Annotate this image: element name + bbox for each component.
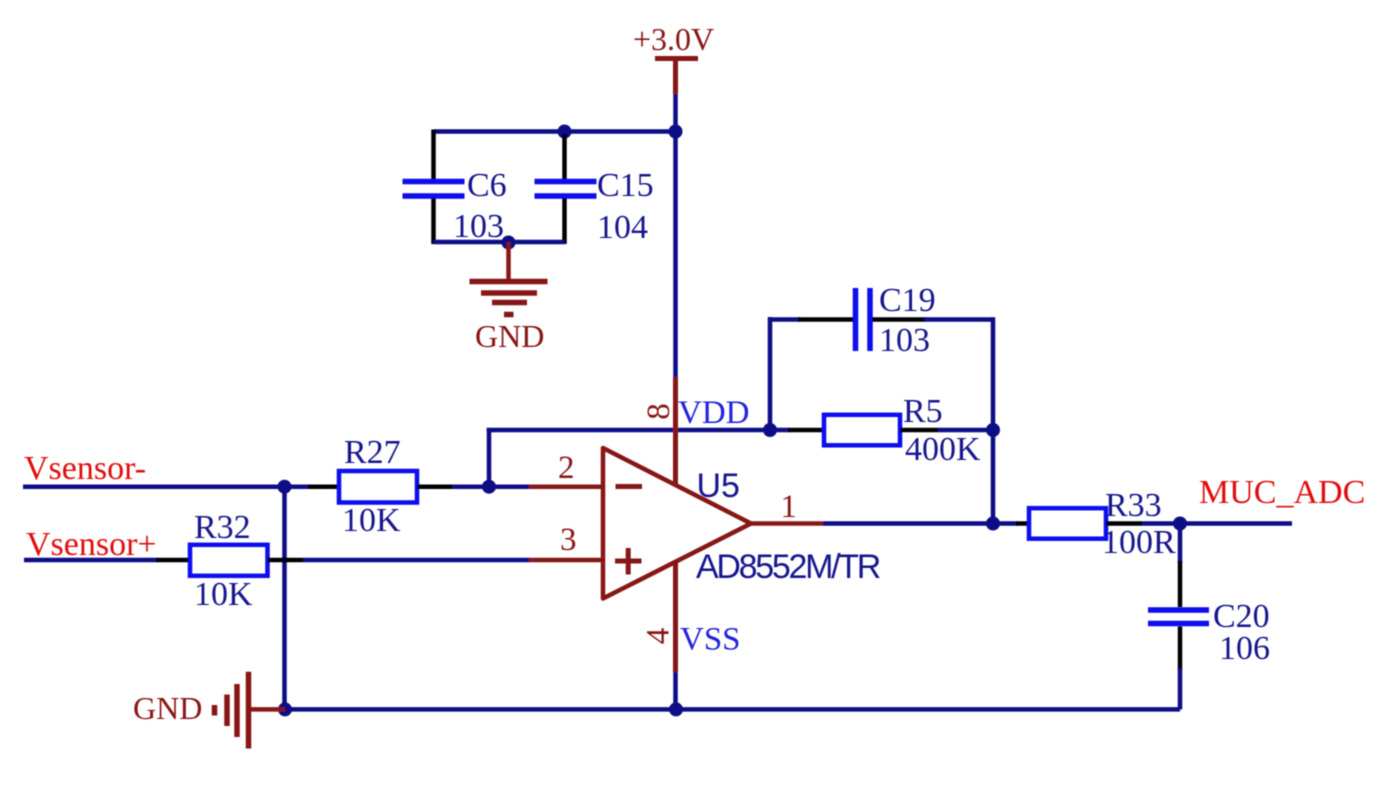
svg-text:2: 2 — [558, 450, 575, 486]
junction inverting input node — [482, 480, 496, 494]
junction top rail at +3.0V — [669, 125, 683, 139]
svg-text:103: 103 — [453, 208, 504, 245]
wire Vsensor- — [23, 484, 285, 489]
pin number 2 — [558, 450, 575, 486]
svg-text:C15: C15 — [597, 167, 654, 204]
label C19 — [879, 282, 936, 319]
power label +3.0V — [633, 21, 714, 57]
wire feedback horizontal — [487, 428, 770, 433]
svg-text:C19: C19 — [879, 282, 936, 319]
wire pin2 — [489, 484, 602, 489]
wire feedback right riser — [991, 317, 996, 430]
junction R5 right — [986, 423, 1000, 437]
wire feedback left riser to C19 — [768, 317, 773, 430]
op-amp VSS pin line (pin 4) — [673, 562, 678, 672]
svg-text:400K: 400K — [905, 431, 981, 468]
junction top rail at C15 — [558, 125, 572, 139]
label R27 — [344, 434, 401, 471]
svg-text:106: 106 — [1219, 630, 1270, 667]
op-amp VDD pin line (pin 8) — [673, 377, 678, 486]
wire MUC_ADC stub — [1180, 521, 1292, 526]
svg-text:U5: U5 — [697, 467, 740, 505]
op-amp U5 triangle — [603, 448, 751, 599]
wire feedback to output node — [991, 430, 996, 524]
svg-text:Vsensor+: Vsensor+ — [26, 526, 157, 563]
value 103 (C6) — [453, 208, 504, 245]
pin number 1 — [781, 489, 798, 525]
svg-text:GND: GND — [475, 318, 544, 354]
svg-text:C6: C6 — [467, 167, 507, 204]
svg-text:10K: 10K — [194, 576, 253, 613]
value 106 (C20) — [1219, 630, 1270, 667]
wire top cap rail — [434, 129, 676, 134]
junction output node — [986, 517, 1000, 531]
svg-text:VDD: VDD — [678, 395, 750, 431]
junction cap rail to ground — [502, 236, 516, 250]
svg-text:Vsensor-: Vsensor- — [24, 450, 146, 487]
svg-text:R32: R32 — [194, 509, 251, 546]
resistor R5 — [770, 415, 993, 446]
junction feedback left — [763, 423, 777, 437]
resistor R27 — [285, 471, 490, 503]
power label GND (left) — [133, 690, 202, 726]
svg-text:1: 1 — [781, 489, 798, 525]
svg-text:GND: GND — [133, 690, 202, 726]
svg-text:R33: R33 — [1105, 487, 1162, 524]
wire pin3 — [303, 558, 602, 563]
net label Vsensor- — [24, 450, 146, 487]
label C15 — [597, 167, 654, 204]
svg-text:8: 8 — [641, 403, 677, 420]
wire pin1 output — [751, 521, 993, 526]
junction Vsensor- node — [278, 480, 292, 494]
value 10K (R27) — [342, 502, 401, 539]
part value AD8552M/TR — [696, 548, 880, 586]
svg-text:4: 4 — [641, 628, 677, 645]
designator U5 — [697, 467, 740, 505]
svg-text:R5: R5 — [903, 393, 943, 430]
svg-text:R27: R27 — [344, 434, 401, 471]
ground symbol (left GND) — [215, 672, 286, 749]
svg-text:MUC_ADC: MUC_ADC — [1199, 474, 1365, 511]
label C6 — [467, 167, 507, 204]
pin name VSS — [680, 622, 741, 658]
junction ground rail at VSS — [669, 702, 683, 716]
wire riser to feedback — [487, 428, 492, 487]
pin number 8 (rotated) — [641, 403, 677, 420]
power label GND (top) — [475, 318, 544, 354]
label C20 — [1213, 598, 1270, 635]
wire ground rail bottom — [285, 707, 1180, 712]
svg-text:+3.0V: +3.0V — [633, 21, 714, 57]
resistor R32 — [24, 545, 303, 576]
wire VSS to ground rail — [673, 672, 678, 709]
wire bottom cap rail — [434, 240, 565, 245]
power bar symbol +3.0V — [655, 59, 698, 95]
value 103 (C19) — [879, 322, 930, 359]
svg-text:103: 103 — [879, 322, 930, 359]
value 10K (R32) — [194, 576, 253, 613]
wire VDD supply vertical — [673, 132, 678, 378]
pin name VDD — [678, 395, 750, 431]
net label Vsensor+ — [26, 526, 157, 563]
wire +3.0V vertical to junction — [673, 94, 678, 132]
op-amp plus input mark — [615, 548, 642, 575]
junction MUC_ADC node — [1173, 517, 1187, 531]
svg-text:VSS: VSS — [680, 622, 741, 658]
capacitor C20 — [1148, 524, 1209, 710]
wire Vsensor- node down to ground rail — [282, 487, 287, 710]
svg-text:100R: 100R — [1102, 524, 1176, 561]
capacitor C6 — [403, 130, 465, 245]
svg-text:AD8552M/TR: AD8552M/TR — [696, 548, 880, 586]
resistor R33 — [993, 508, 1180, 539]
net label MUC_ADC — [1199, 474, 1365, 511]
label R5 — [903, 393, 943, 430]
svg-text:10K: 10K — [342, 502, 401, 539]
value 104 (C15) — [597, 209, 648, 246]
value 400K (R5) — [905, 431, 981, 468]
pin number 4 (rotated) — [641, 628, 677, 645]
svg-text:104: 104 — [597, 209, 648, 246]
label R32 — [194, 509, 251, 546]
op-amp minus input mark — [616, 484, 643, 489]
junction ground rail left — [278, 702, 292, 716]
capacitor C15 — [535, 134, 597, 244]
value 100R (R33) — [1102, 524, 1176, 561]
capacitor C19 — [768, 288, 993, 351]
ground symbol (top GND) — [470, 242, 548, 315]
label R33 — [1105, 487, 1162, 524]
svg-text:3: 3 — [560, 522, 577, 558]
pin number 3 — [560, 522, 577, 558]
